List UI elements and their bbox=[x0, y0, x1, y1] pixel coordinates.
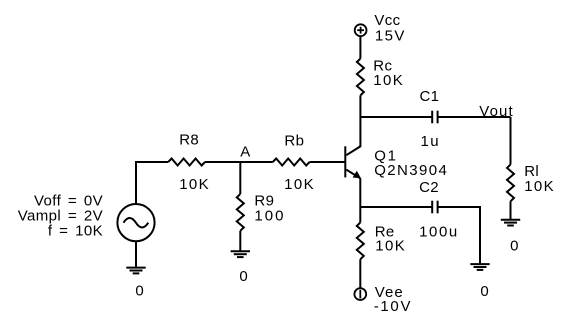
svg-text:10K: 10K bbox=[373, 72, 404, 89]
wire emitter down to Re bbox=[359, 178, 361, 222]
svg-text:Rb: Rb bbox=[284, 132, 304, 149]
wire R9 to ground bbox=[239, 231, 241, 252]
resistor Re bbox=[357, 223, 364, 260]
wire Rb to Q1 base bbox=[310, 161, 346, 163]
ground (below V1) bbox=[126, 268, 145, 274]
wire node A down to R9 bbox=[239, 162, 241, 194]
svg-text:10K: 10K bbox=[284, 176, 315, 193]
Vee port bbox=[354, 288, 366, 300]
svg-text:-10V: -10V bbox=[374, 298, 413, 315]
wire Vcc to Rc bbox=[359, 36, 361, 59]
svg-text:0: 0 bbox=[480, 283, 489, 300]
svg-text:A: A bbox=[240, 144, 250, 161]
transistor Q1 bbox=[345, 145, 361, 178]
wire R8 to Rb through node A bbox=[205, 161, 273, 163]
wire C2 to ground corner bbox=[438, 207, 480, 264]
svg-text:Q2N3904: Q2N3904 bbox=[374, 162, 448, 179]
Vcc port bbox=[355, 24, 367, 36]
svg-text:10K: 10K bbox=[179, 176, 210, 193]
resistor R8 bbox=[168, 159, 205, 166]
resistor R9 bbox=[237, 194, 244, 231]
wire Rc to collector bbox=[359, 95, 361, 146]
svg-text:100u: 100u bbox=[419, 223, 459, 240]
svg-text:R8: R8 bbox=[179, 132, 199, 149]
wire V1 bottom to ground bbox=[135, 241, 137, 268]
resistor Rc bbox=[357, 59, 364, 96]
svg-text:C1: C1 bbox=[420, 88, 440, 105]
svg-text:f = 10K: f = 10K bbox=[48, 222, 103, 239]
svg-text:1u: 1u bbox=[421, 133, 441, 150]
resistor Rl bbox=[507, 165, 514, 202]
ground (below Rl) bbox=[501, 220, 520, 226]
svg-text:C2: C2 bbox=[419, 179, 439, 196]
svg-text:10K: 10K bbox=[524, 178, 555, 195]
capacitor C1 bbox=[432, 111, 437, 124]
ground (below C2) bbox=[470, 264, 489, 270]
svg-text:0: 0 bbox=[135, 283, 144, 300]
wire C1 to Vout corner bbox=[438, 116, 511, 118]
wire Vout corner down to Rl bbox=[510, 117, 512, 165]
svg-text:10K: 10K bbox=[375, 238, 406, 255]
wire V1 top to rail corner bbox=[136, 162, 168, 204]
wire Rl to ground bbox=[510, 201, 512, 219]
capacitor C2 bbox=[432, 201, 437, 214]
wire emitter node to C2 bbox=[360, 206, 432, 208]
resistor Rb bbox=[273, 159, 310, 166]
voltage source V1 (sine) bbox=[117, 204, 154, 241]
wire Re to Vee bbox=[359, 259, 361, 288]
svg-text:100: 100 bbox=[254, 207, 285, 224]
svg-text:0: 0 bbox=[510, 237, 519, 254]
svg-text:0: 0 bbox=[239, 268, 248, 285]
svg-text:Vout: Vout bbox=[479, 103, 513, 120]
svg-text:15V: 15V bbox=[375, 27, 406, 44]
wire collector node to C1 bbox=[360, 116, 432, 118]
ground (below R9) bbox=[231, 251, 250, 257]
